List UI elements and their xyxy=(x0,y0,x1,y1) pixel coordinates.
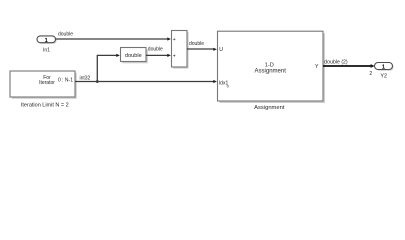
svg-text:1: 1 xyxy=(45,38,48,44)
outport Y2 xyxy=(375,63,394,71)
wire In1 to Sum xyxy=(56,37,171,40)
svg-text:+: + xyxy=(173,53,176,59)
svg-text:0 : N-1: 0 : N-1 xyxy=(58,77,73,83)
wire Assignment Y to outport (wide) xyxy=(323,64,375,68)
svg-text:2: 2 xyxy=(369,71,372,77)
svg-text:double: double xyxy=(189,41,204,47)
for iterator block xyxy=(10,71,77,99)
svg-text:Iteration Limit N = 2: Iteration Limit N = 2 xyxy=(21,103,69,109)
svg-text:Assignment: Assignment xyxy=(254,105,285,111)
svg-text:double (2): double (2) xyxy=(324,60,348,66)
svg-text:Y: Y xyxy=(315,64,319,70)
svg-text:1: 1 xyxy=(382,65,385,71)
wire For Iterator to Assignment Idx1 xyxy=(75,80,217,83)
junction dot xyxy=(96,80,99,83)
svg-text:U: U xyxy=(219,47,223,53)
wire junction to conversion xyxy=(97,54,120,82)
svg-text:double: double xyxy=(148,46,163,52)
svg-text:Y2: Y2 xyxy=(380,73,387,79)
svg-text:int32: int32 xyxy=(80,75,91,81)
svg-text:double: double xyxy=(58,32,73,38)
svg-text:double: double xyxy=(125,53,142,59)
svg-text:Assignment: Assignment xyxy=(255,69,287,75)
svg-text:Iterator: Iterator xyxy=(39,80,55,86)
data type conversion block Conversion xyxy=(121,48,148,64)
svg-text:In1: In1 xyxy=(43,48,50,54)
sum block Add xyxy=(172,31,189,69)
svg-text:+: + xyxy=(173,37,176,43)
assignment block xyxy=(218,31,326,103)
wire conversion to Sum xyxy=(146,54,171,57)
wire Sum to Assignment U xyxy=(187,48,217,51)
inport In1 xyxy=(37,36,57,44)
